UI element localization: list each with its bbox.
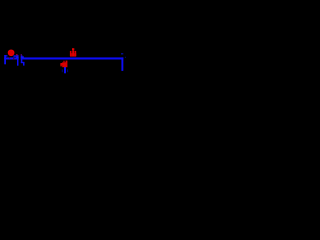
wire: main horizontal net, left segment to capacitor — [4, 57, 19, 59]
wire: source V1 right lead — [13, 55, 17, 57]
node A2: dark mark on wire right of V1 — [13, 58, 14, 59]
node A: junction dot under V1 — [9, 57, 10, 58]
ground: right hatch — [66, 69, 69, 72]
pin 2 mark above right corner (navy dash) — [121, 53, 123, 54]
component R1 label (red glyph below wire) — [60, 61, 67, 68]
capacitor C1 left plate — [17, 55, 19, 66]
wire: down stub after L-bend — [23, 62, 25, 66]
capacitor C1 right plate — [21, 55, 23, 63]
node: junction chunk at C1 right plate — [21, 56, 24, 58]
node B: faint dot right of corner — [125, 57, 126, 58]
wire: left vertical stub at input — [4, 55, 6, 64]
wire: source V1 left lead — [5, 55, 8, 56]
ground: left hatch — [61, 69, 64, 72]
wire: main horizontal net, capacitor to right corner — [21, 57, 124, 59]
wire: L-bend from C1 right plate — [21, 62, 25, 63]
voltage source V1 — [8, 50, 13, 55]
component L1 symbol (red glyph above wire) — [70, 48, 76, 57]
capacitor C1 polarity mark left (dark red) — [16, 54, 18, 56]
background — [0, 0, 128, 128]
node: junction chunk at C1 left plate — [16, 56, 19, 58]
capacitor C1 polarity mark right (dark red) — [21, 54, 22, 56]
wire: right vertical drop at output — [121, 57, 123, 71]
wire: stub from R1 down to ground — [64, 67, 66, 74]
